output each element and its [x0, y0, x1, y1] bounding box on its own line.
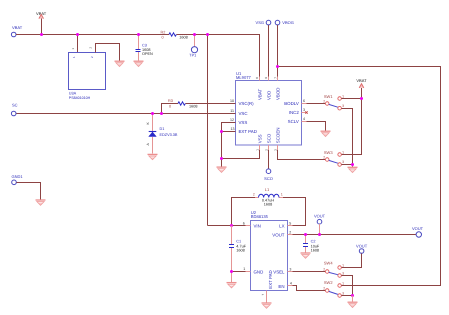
node junction VBAT/power	[40, 33, 43, 36]
svg-text:4: 4	[290, 281, 292, 285]
svg-text:12: 12	[230, 118, 234, 122]
svg-text:VSEL: VSEL	[273, 269, 285, 274]
svg-text:SCLV: SCLV	[288, 119, 299, 124]
node junction VBOG	[276, 65, 279, 68]
node junction feed	[206, 33, 209, 36]
node junction C1/GND	[230, 270, 233, 273]
svg-text:2: 2	[323, 267, 325, 271]
svg-text:11: 11	[230, 109, 234, 113]
wire VIN line	[208, 225, 246, 227]
svg-text:2: 2	[89, 47, 93, 49]
testpoint TP1	[189, 35, 197, 58]
U1 pin 3 INC2 (no connect)	[289, 108, 308, 115]
svg-text:VBAT: VBAT	[12, 25, 23, 30]
svg-text:VOUT: VOUT	[356, 244, 368, 249]
svg-text:EDZV3.3B: EDZV3.3B	[160, 133, 178, 137]
svg-text:7: 7	[273, 77, 277, 79]
svg-text:2: 2	[289, 230, 291, 234]
svg-text:VOUT: VOUT	[314, 213, 326, 218]
svg-text:GND1: GND1	[12, 174, 24, 179]
U1 pin SCO (bottom)	[265, 133, 272, 151]
svg-text:EXT PAD: EXT PAD	[239, 129, 257, 134]
port SC	[11, 102, 17, 115]
U1 pin 4 SCLV	[288, 117, 307, 124]
svg-text:1608: 1608	[264, 202, 272, 206]
svg-text:VSC: VSC	[239, 111, 248, 116]
diode D1	[146, 114, 178, 154]
node junction SW3 pin3	[351, 163, 354, 166]
svg-text:9: 9	[264, 77, 268, 79]
svg-text:3: 3	[342, 271, 344, 275]
U1 pin 6 BODLV	[284, 99, 306, 106]
port VOUT mid (SW4)	[356, 244, 368, 254]
svg-text:VBOG: VBOG	[282, 20, 294, 25]
wire SW4 pin3 down	[341, 276, 352, 296]
svg-text:D1: D1	[160, 127, 165, 131]
ground U1 VSS	[217, 167, 227, 172]
U1 pin 10 VSC(R)	[230, 99, 254, 106]
svg-text:SCO: SCO	[264, 176, 273, 181]
svg-text:2: 2	[265, 149, 269, 151]
svg-text:SW3: SW3	[324, 150, 333, 155]
svg-text:2: 2	[323, 99, 325, 103]
wire VOUT net	[293, 234, 417, 236]
svg-text:VSS: VSS	[239, 120, 248, 125]
port VSG	[256, 20, 271, 25]
wire SW2 pin3	[341, 295, 352, 297]
svg-text:2: 2	[323, 286, 325, 290]
wire VBAT rail to SW3 pin1	[341, 99, 361, 155]
svg-text:6: 6	[303, 99, 305, 103]
wire VBAT main horizontal	[16, 35, 259, 81]
svg-text:GND: GND	[254, 269, 264, 274]
svg-text:VSC(R): VSC(R)	[239, 101, 255, 106]
node junction D1/SC	[151, 112, 154, 115]
svg-text:1: 1	[72, 56, 76, 58]
wire SW1 pin1 to VBAT rail	[341, 98, 361, 100]
inductor L1	[253, 187, 283, 206]
wire EN to SW2	[293, 286, 326, 291]
svg-text:1: 1	[243, 267, 245, 271]
capacitor C1	[229, 226, 247, 282]
U2 pin 4 EN	[278, 281, 292, 289]
node junction C3	[137, 33, 140, 36]
power symbol VBAT right	[356, 78, 367, 99]
U2 pin 3 VSEL	[273, 267, 292, 274]
wire to ground SW2	[352, 296, 354, 302]
svg-text:8: 8	[255, 77, 259, 79]
svg-text:K: K	[146, 122, 150, 125]
wire SCO pin to port	[268, 150, 270, 169]
svg-text:1: 1	[342, 150, 344, 154]
svg-text:2: 2	[253, 192, 255, 196]
regulator U2 body	[251, 210, 288, 291]
svg-text:BD88135: BD88135	[251, 214, 269, 219]
port GND1	[12, 174, 24, 185]
svg-text:R2: R2	[161, 31, 166, 35]
wire SW1 pin3 down to ground	[341, 109, 352, 167]
svg-text:3: 3	[342, 104, 344, 108]
ground U3A pin2	[115, 61, 125, 66]
svg-text:SC: SC	[12, 102, 18, 107]
wire VBOG to right edge and down to SW2	[278, 67, 441, 286]
svg-text:INC2: INC2	[289, 110, 300, 115]
svg-text:3: 3	[289, 267, 291, 271]
svg-text:EN: EN	[278, 284, 284, 289]
svg-text:10: 10	[230, 99, 234, 103]
svg-text:PS8401010H: PS8401010H	[69, 96, 91, 100]
ground C3	[134, 61, 144, 66]
svg-text:C2: C2	[311, 240, 316, 244]
svg-text:VOUT: VOUT	[272, 232, 285, 237]
svg-text:OPEN: OPEN	[142, 52, 153, 56]
node junction VSS/EXTPAD	[220, 130, 223, 133]
svg-text:7: 7	[261, 294, 265, 296]
wire VSG to U1	[268, 25, 270, 81]
svg-text:L1: L1	[265, 187, 270, 192]
wire GND pin to C1 node	[232, 271, 246, 273]
svg-text:2: 2	[90, 56, 94, 58]
svg-text:2: 2	[323, 155, 325, 159]
svg-text:SW1: SW1	[324, 94, 333, 99]
node junction TP1	[193, 33, 196, 36]
svg-text:5: 5	[289, 221, 291, 225]
resistor R3	[162, 99, 236, 113]
U1 pin VSS (bottom)	[256, 134, 263, 150]
U1 pin 11 VSC	[230, 109, 247, 116]
svg-text:1608: 1608	[236, 249, 244, 253]
node junction VOUT port	[318, 233, 321, 236]
ground SW2/SW4	[348, 302, 358, 307]
U2 pin 2 VOUT	[272, 230, 292, 237]
svg-text:A: A	[146, 143, 150, 146]
ground D1	[148, 154, 158, 159]
ground C1	[227, 283, 237, 288]
svg-text:VSG: VSG	[256, 20, 264, 25]
port SCO	[264, 169, 273, 181]
U1 pin SCOEN (bottom)	[274, 128, 281, 151]
node junction VSS bottom	[220, 157, 223, 160]
wire SW2 pin1 to right edge	[341, 285, 440, 287]
U2 pin 5 LX	[279, 221, 292, 228]
wire SCOEN to SW3	[278, 150, 326, 160]
ground SW1/SW3	[348, 167, 358, 172]
switch SW1	[307, 94, 345, 110]
port VOUT near U2	[314, 213, 326, 234]
svg-text:1: 1	[256, 149, 260, 151]
component U3A	[69, 35, 106, 100]
svg-text:4: 4	[303, 117, 305, 121]
svg-text:VIN: VIN	[254, 223, 261, 228]
svg-text:1: 1	[342, 263, 344, 267]
svg-text:R3: R3	[168, 99, 173, 103]
svg-text:BODLV: BODLV	[284, 101, 299, 106]
svg-text:VSS: VSS	[257, 134, 262, 143]
svg-text:3: 3	[303, 108, 305, 112]
wire L1 right to LX	[283, 198, 306, 226]
U1 pin VDD (top)	[264, 77, 271, 101]
svg-text:SW2: SW2	[324, 280, 333, 285]
svg-text:VDD: VDD	[266, 91, 271, 100]
U2 pin 1 GND	[243, 267, 263, 274]
svg-text:VBAT: VBAT	[257, 89, 262, 100]
svg-text:ML9077: ML9077	[236, 75, 252, 80]
ground SCLV	[321, 131, 331, 136]
svg-text:3: 3	[342, 160, 344, 164]
U1 pin 12 VSS	[230, 118, 247, 125]
svg-text:TP1: TP1	[189, 53, 196, 57]
wire VBOG to U1	[277, 25, 279, 81]
svg-text:VOUT: VOUT	[412, 226, 424, 231]
U2 pin 6 VIN	[243, 221, 261, 228]
svg-text:1: 1	[71, 48, 75, 50]
power symbol VBAT	[36, 11, 47, 35]
svg-text:1608: 1608	[189, 105, 197, 109]
node junction SW2/SW4 ground	[351, 294, 354, 297]
svg-text:C1: C1	[236, 240, 241, 244]
node junction SW1/VBAT	[360, 97, 363, 100]
svg-text:1: 1	[281, 192, 283, 196]
svg-text:LX: LX	[279, 223, 284, 228]
wire VBAT feed down to U2	[207, 35, 209, 226]
svg-text:1: 1	[342, 94, 344, 98]
svg-text:EXT PAD: EXT PAD	[268, 270, 273, 288]
port VOUT far right	[412, 226, 424, 237]
svg-text:SW4: SW4	[324, 261, 333, 266]
ground C2	[301, 253, 311, 258]
op-amp U1 body	[236, 71, 302, 145]
wire U1 VSS/EXTPAD to ground	[222, 123, 260, 167]
port VBAT	[11, 25, 22, 37]
svg-text:VBOD: VBOD	[275, 88, 280, 100]
wire GND1 to ground	[16, 183, 40, 200]
resistor R2	[161, 31, 188, 40]
ground U2 EXT PAD	[262, 303, 272, 308]
wire SW3 pin3	[341, 164, 352, 166]
svg-text:0: 0	[162, 35, 164, 39]
switch SW3	[323, 150, 344, 166]
svg-text:3: 3	[342, 291, 344, 295]
switch SW4	[293, 261, 345, 278]
node junction VIN/C1/L1	[230, 224, 233, 227]
svg-text:1: 1	[342, 281, 344, 285]
ground GND1	[36, 200, 46, 205]
capacitor C2	[303, 235, 320, 253]
wire SC net	[16, 113, 235, 115]
svg-text:13: 13	[231, 127, 235, 131]
node junction U3A pin1	[76, 33, 79, 36]
svg-text:1608: 1608	[311, 249, 319, 253]
U1 pin 13 EXT PAD	[231, 127, 257, 134]
U2 pin 7 EXT PAD	[261, 270, 273, 302]
svg-text:SCOEN: SCOEN	[275, 128, 280, 144]
svg-text:1608: 1608	[179, 36, 187, 40]
wire SCLV to ground	[307, 122, 326, 131]
switch SW2	[323, 280, 344, 297]
port VBOG	[275, 20, 294, 25]
wire U3A pin2 to ground	[89, 44, 120, 61]
svg-text:0: 0	[169, 105, 171, 109]
capacitor C3	[136, 35, 154, 61]
svg-text:6: 6	[243, 221, 245, 225]
node junction C2	[304, 233, 307, 236]
svg-text:VBAT: VBAT	[356, 78, 367, 83]
svg-text:SCO: SCO	[266, 133, 271, 143]
wire L1 left to VIN node	[232, 198, 256, 226]
wire VOUT mid to SW4 pin1	[341, 253, 361, 267]
U1 pin VBAT (top)	[255, 77, 262, 101]
node junction R3/SC	[160, 112, 163, 115]
U1 pin VBOD (top)	[273, 77, 280, 101]
